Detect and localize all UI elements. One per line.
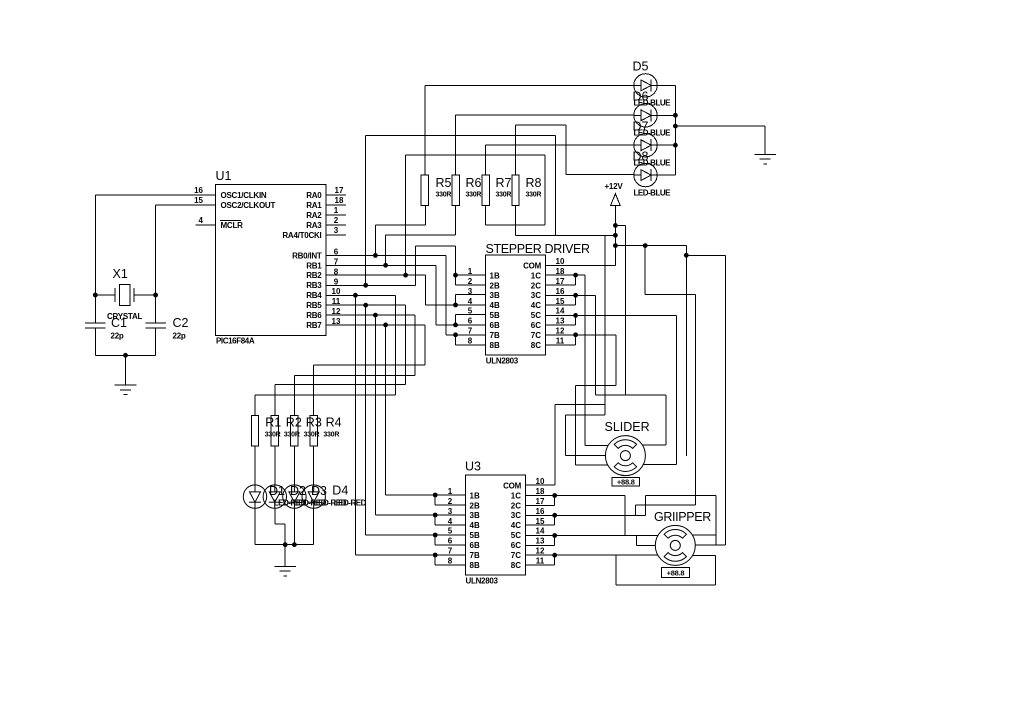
svg-text:15: 15 — [194, 196, 203, 205]
svg-text:22p: 22p — [111, 332, 124, 341]
U3 output 7C to gripper bottom loop — [526, 553, 716, 585]
wire U1 pin16 to crystal left node — [95, 195, 215, 295]
svg-text:15: 15 — [536, 517, 545, 526]
svg-text:R3: R3 — [306, 416, 322, 430]
svg-text:330R: 330R — [466, 192, 482, 199]
svg-text:2B: 2B — [490, 281, 500, 290]
wire LED bus to ground — [675, 125, 765, 127]
svg-text:7B: 7B — [470, 551, 480, 560]
svg-text:RA3: RA3 — [306, 221, 322, 230]
svg-text:14: 14 — [556, 307, 565, 316]
wire RB3 branch to col near LED — [366, 135, 556, 285]
U3 pin names — [470, 481, 522, 570]
svg-text:13: 13 — [556, 317, 565, 326]
svg-text:8C: 8C — [511, 561, 521, 570]
ground crystal circuit — [115, 355, 137, 394]
svg-text:7: 7 — [448, 547, 453, 556]
svg-text:D3: D3 — [311, 484, 327, 498]
svg-text:6C: 6C — [531, 321, 541, 330]
U2 COM wire to +12V — [546, 265, 616, 267]
svg-text:330R: 330R — [304, 432, 320, 439]
wire RB5 net — [326, 303, 435, 535]
svg-text:+88.8: +88.8 — [617, 477, 635, 486]
svg-text:R1: R1 — [265, 416, 281, 430]
svg-text:D1: D1 — [269, 484, 285, 498]
svg-text:C1: C1 — [111, 316, 127, 330]
U2 output 7C to slider LL — [546, 332, 616, 464]
svg-text:330R: 330R — [265, 432, 281, 439]
ground LED D1-D4 bus — [274, 545, 296, 576]
svg-text:RA0: RA0 — [306, 191, 322, 200]
svg-text:6B: 6B — [470, 541, 480, 550]
U2 output 3C to slider top — [546, 293, 666, 445]
junction +12V A — [613, 223, 618, 228]
U2 left pin wires — [436, 273, 485, 345]
svg-text:14: 14 — [536, 527, 545, 536]
svg-text:5C: 5C — [511, 531, 521, 540]
svg-text:330R: 330R — [323, 432, 339, 439]
U3 left pin wires — [433, 493, 466, 565]
wire RB3 net — [326, 246, 456, 288]
svg-text:R6: R6 — [466, 176, 482, 190]
svg-text:8: 8 — [448, 557, 453, 566]
IC U2 ULN2803 stepper driver body — [486, 255, 546, 355]
svg-text:D4: D4 — [332, 484, 348, 498]
svg-text:MCLR: MCLR — [221, 221, 244, 230]
svg-text:RB5: RB5 — [306, 301, 322, 310]
wire R6 top to LED D6 — [456, 115, 635, 175]
wire R1 feeder — [255, 395, 396, 416]
svg-text:17: 17 — [556, 277, 565, 286]
resistor R1 — [251, 416, 258, 446]
svg-text:1: 1 — [468, 267, 473, 276]
svg-text:D5: D5 — [633, 60, 649, 74]
junction crystal left — [93, 293, 98, 298]
wire U1 pin15 to crystal right node — [156, 205, 216, 295]
svg-text:3: 3 — [448, 507, 453, 516]
resistor R5 — [421, 175, 428, 205]
svg-text:3C: 3C — [531, 291, 541, 300]
svg-text:3C: 3C — [511, 511, 521, 520]
svg-text:OSC2/CLKOUT: OSC2/CLKOUT — [221, 201, 276, 210]
display GRIPPER +88.8 — [662, 568, 690, 578]
wire R8 bottom to +12V node — [516, 205, 616, 235]
LED D5 LED-BLUE — [634, 74, 657, 97]
svg-text:+88.8: +88.8 — [667, 568, 685, 577]
svg-text:RB7: RB7 — [306, 321, 322, 330]
svg-text:2C: 2C — [531, 281, 541, 290]
svg-text:COM: COM — [503, 481, 522, 490]
svg-text:8: 8 — [468, 337, 473, 346]
svg-text:5: 5 — [448, 527, 453, 536]
svg-text:RA2: RA2 — [306, 211, 322, 220]
junction +12V B — [613, 233, 618, 238]
svg-text:LED-BLUE: LED-BLUE — [634, 158, 672, 167]
wire RB4 net — [326, 293, 435, 555]
svg-text:16: 16 — [536, 507, 545, 516]
svg-text:COM: COM — [523, 261, 542, 270]
wire RB1 net — [326, 263, 436, 325]
svg-text:8C: 8C — [531, 341, 541, 350]
svg-text:8B: 8B — [470, 561, 480, 570]
resistor R7 — [482, 175, 489, 205]
svg-text:8B: 8B — [490, 341, 500, 350]
svg-text:C2: C2 — [173, 316, 189, 330]
svg-text:2C: 2C — [511, 501, 521, 510]
junction +12V C — [613, 243, 618, 248]
wire R8 top to LED D8 — [516, 125, 635, 175]
wire +12V branch B to slider common — [604, 235, 606, 415]
LED D7 LED-BLUE — [634, 134, 657, 157]
svg-text:5B: 5B — [490, 311, 500, 320]
svg-text:+12V: +12V — [605, 182, 624, 191]
svg-text:12: 12 — [556, 327, 565, 336]
wire RB6 net — [326, 313, 435, 515]
svg-text:ULN2803: ULN2803 — [466, 577, 499, 586]
svg-text:18: 18 — [536, 487, 545, 496]
svg-text:U1: U1 — [216, 169, 232, 183]
svg-text:R8: R8 — [526, 176, 542, 190]
svg-text:4C: 4C — [531, 301, 541, 310]
svg-text:RA4/T0CKI: RA4/T0CKI — [282, 231, 321, 240]
U2 output 5C to slider LR — [546, 313, 677, 464]
wire capacitor bottom bus — [95, 354, 155, 356]
svg-text:4: 4 — [468, 297, 473, 306]
svg-text:LED-BLUE: LED-BLUE — [634, 128, 672, 137]
svg-text:RB2: RB2 — [306, 271, 322, 280]
svg-text:22p: 22p — [173, 332, 186, 341]
U2 pin numbers — [468, 257, 565, 346]
resistor R2 — [271, 416, 278, 446]
wire +12V branch A to U3 COM — [555, 225, 625, 485]
svg-text:11: 11 — [536, 557, 545, 566]
svg-text:330R: 330R — [284, 432, 300, 439]
capacitor C2 — [145, 295, 165, 355]
svg-text:12: 12 — [536, 547, 545, 556]
svg-text:2: 2 — [468, 277, 473, 286]
junction crystal right — [153, 293, 158, 298]
svg-text:1B: 1B — [470, 491, 480, 500]
U3 COM stub — [526, 484, 556, 486]
resistor R4 — [310, 416, 317, 446]
svg-text:330R: 330R — [526, 192, 542, 199]
svg-text:4: 4 — [199, 216, 204, 225]
U2 pin names — [490, 261, 542, 350]
svg-text:R2: R2 — [286, 416, 302, 430]
IC U1 PIC16F84A body — [215, 184, 326, 335]
junction capacitor bus — [123, 353, 128, 358]
svg-text:5C: 5C — [531, 311, 541, 320]
power +12V arrow — [611, 194, 621, 266]
svg-text:PIC16F84A: PIC16F84A — [216, 337, 255, 346]
svg-text:RB6: RB6 — [306, 311, 322, 320]
svg-text:2: 2 — [334, 216, 339, 225]
svg-text:1C: 1C — [511, 491, 521, 500]
resistor R8 — [512, 175, 519, 205]
U1 RA0-RA4 pin stubs — [326, 195, 346, 235]
ground LED bus — [754, 126, 776, 164]
svg-text:16: 16 — [194, 186, 203, 195]
U1 MCLR pin wire — [196, 224, 216, 226]
U3 output 1C to gripper — [526, 493, 626, 535]
wire R5 top to LED D5 — [425, 85, 634, 175]
U1 pin numbers — [194, 186, 344, 326]
U3 pin numbers — [448, 477, 545, 566]
svg-text:7: 7 — [468, 327, 473, 336]
svg-text:1C: 1C — [531, 271, 541, 280]
svg-text:6: 6 — [468, 317, 473, 326]
U3 output 3C to gripper right side — [526, 496, 726, 546]
svg-text:4B: 4B — [470, 521, 480, 530]
svg-text:15: 15 — [556, 297, 565, 306]
svg-text:3B: 3B — [490, 291, 500, 300]
U3 output 5C to gripper left side — [526, 533, 658, 545]
LED D8 LED-BLUE — [634, 163, 657, 186]
resistor R3 — [291, 416, 298, 446]
svg-text:4: 4 — [448, 517, 453, 526]
svg-text:4C: 4C — [511, 521, 521, 530]
IC U3 ULN2803 body — [466, 475, 526, 575]
svg-text:18: 18 — [556, 267, 565, 276]
svg-text:7C: 7C — [531, 331, 541, 340]
svg-text:U3: U3 — [465, 460, 481, 474]
svg-text:7C: 7C — [511, 551, 521, 560]
wire +12V branch C right — [615, 243, 725, 545]
wire R2 feeder — [275, 385, 406, 416]
svg-text:LED-RED: LED-RED — [334, 499, 367, 508]
svg-text:3: 3 — [334, 226, 339, 235]
wire R5 bottom to RB0 — [375, 205, 425, 255]
svg-text:R7: R7 — [496, 176, 512, 190]
svg-text:16: 16 — [556, 287, 565, 296]
wire LED cathode bus — [657, 85, 678, 175]
svg-text:SLIDER: SLIDER — [605, 420, 650, 434]
wire R7 bottom loop to RB2 — [406, 155, 545, 275]
svg-text:RA1: RA1 — [306, 201, 322, 210]
svg-text:X1: X1 — [113, 267, 128, 281]
svg-text:1: 1 — [334, 206, 339, 215]
svg-text:OSC1/CLKIN: OSC1/CLKIN — [221, 191, 267, 200]
wire RB7 net — [326, 323, 435, 496]
svg-text:STEPPER DRIVER: STEPPER DRIVER — [486, 242, 590, 256]
svg-text:R5: R5 — [436, 176, 452, 190]
svg-text:4B: 4B — [490, 301, 500, 310]
svg-text:3B: 3B — [470, 511, 480, 520]
wire R3 feeder — [294, 375, 415, 415]
capacitor C1 — [85, 295, 105, 355]
svg-text:RB3: RB3 — [306, 281, 322, 290]
svg-text:10: 10 — [556, 257, 565, 266]
wire R1-R4 to LED tops — [255, 446, 314, 486]
svg-text:6C: 6C — [511, 541, 521, 550]
svg-text:18: 18 — [335, 196, 344, 205]
svg-text:2B: 2B — [470, 501, 480, 510]
wire RB2 net — [326, 273, 456, 305]
svg-text:LED-BLUE: LED-BLUE — [634, 98, 672, 107]
wire LED D1-D4 cathode bus — [255, 508, 314, 547]
svg-text:330R: 330R — [496, 192, 512, 199]
wire R7 top to LED D7 — [486, 145, 635, 175]
svg-text:330R: 330R — [436, 192, 452, 199]
U1 pin names — [220, 191, 322, 330]
svg-text:1B: 1B — [490, 271, 500, 280]
svg-text:R4: R4 — [326, 416, 342, 430]
svg-text:6: 6 — [448, 537, 453, 546]
U2 output 1C to slider — [546, 273, 609, 456]
svg-text:5B: 5B — [470, 531, 480, 540]
svg-text:17: 17 — [536, 497, 545, 506]
LED D6 LED-BLUE — [634, 104, 657, 127]
svg-text:ULN2803: ULN2803 — [486, 357, 519, 366]
svg-text:17: 17 — [335, 186, 344, 195]
display SLIDER +88.8 — [612, 477, 640, 486]
svg-text:RB1: RB1 — [306, 261, 322, 270]
wire R4 feeder — [314, 365, 425, 416]
svg-text:D2: D2 — [290, 484, 306, 498]
svg-text:GRIIPPER: GRIIPPER — [654, 510, 711, 524]
wire R6 bottom to RB1 — [386, 205, 456, 265]
wire RB0 net — [326, 253, 446, 335]
resistor R6 — [452, 175, 459, 205]
crystal X1 — [95, 285, 155, 306]
svg-text:11: 11 — [556, 337, 565, 346]
svg-text:RB4: RB4 — [306, 291, 322, 300]
svg-text:13: 13 — [536, 537, 545, 546]
svg-text:LED-BLUE: LED-BLUE — [634, 188, 672, 197]
svg-text:7B: 7B — [490, 331, 500, 340]
svg-text:6B: 6B — [490, 321, 500, 330]
svg-text:RB0/INT: RB0/INT — [292, 251, 322, 260]
